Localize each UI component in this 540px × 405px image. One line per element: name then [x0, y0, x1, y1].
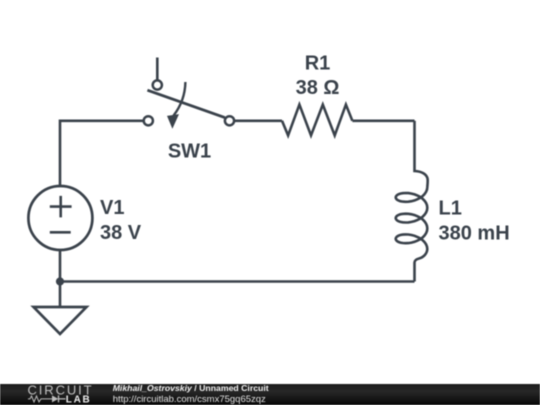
wire: bottom return wire [60, 280, 415, 283]
inductor L1 [396, 121, 428, 282]
svg-text:Mikhail_Ostrovskiy / Unnamed C: Mikhail_Ostrovskiy / Unnamed Circuit [113, 383, 269, 393]
switch SW1 left terminal circle [144, 116, 153, 125]
svg-text:LAB: LAB [66, 395, 92, 405]
V1 plus sign [50, 196, 72, 218]
switch SW1 top stub wire [156, 58, 159, 81]
resistor R1 [282, 105, 352, 136]
node junction dot [56, 277, 64, 285]
svg-text:R1: R1 [305, 53, 331, 75]
ground stub wire [59, 282, 62, 308]
voltage source V1 circle [28, 186, 92, 250]
wire: switch right terminal to resistor R1 [234, 120, 282, 123]
svg-text:38 Ω: 38 Ω [296, 77, 340, 99]
switch SW1 blade [147, 90, 224, 117]
wire: V1 bottom stub [59, 250, 62, 282]
switch SW1 right terminal circle [225, 116, 234, 125]
svg-text:V1: V1 [100, 197, 124, 219]
V1 minus sign [50, 231, 71, 234]
svg-text:L1: L1 [439, 198, 462, 220]
switch SW1 actuation arrow [174, 82, 186, 116]
logo diode symbol [52, 395, 58, 402]
wire: top-left horizontal and left vertical to V1 [60, 121, 144, 186]
wire: resistor R1 to top-right corner down to inductor L1, coil of L1, down to bottom wire [352, 120, 414, 123]
logo resistor squiggle [28, 396, 52, 402]
svg-text:38 V: 38 V [100, 222, 142, 244]
switch SW1 top terminal circle [153, 80, 162, 89]
svg-text:http://circuitlab.com/csmx75gq: http://circuitlab.com/csmx75gq65zqz [113, 394, 266, 405]
svg-text:SW1: SW1 [168, 141, 211, 163]
svg-text:380 mH: 380 mH [439, 223, 510, 245]
ground symbol [34, 307, 87, 334]
